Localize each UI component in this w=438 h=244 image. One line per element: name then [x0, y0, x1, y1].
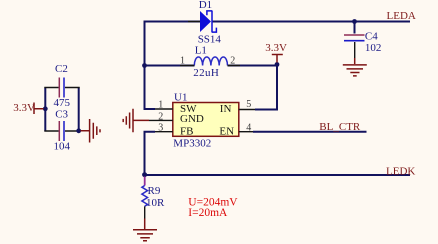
svg-text:3.3V: 3.3V	[13, 102, 35, 114]
op-amp U1 MP3302 chip body	[173, 103, 239, 137]
svg-text:2: 2	[158, 111, 163, 122]
wire L1 right to 3.3V corner and down to pin5	[228, 65, 278, 110]
svg-text:EN: EN	[219, 125, 234, 137]
svg-text:LEDK: LEDK	[386, 166, 415, 178]
node: junction 3.3V top	[275, 62, 280, 67]
node: junction 3.3V left entry	[43, 106, 48, 111]
capacitor C4	[344, 34, 365, 36]
pin 4 EN	[239, 131, 253, 133]
wire L1 left branch	[145, 65, 195, 67]
wire C4 bottom stub (navy part)	[354, 42, 356, 58]
power port 3.3V top (bar)	[272, 55, 283, 63]
wire C3 bottom branch (black pins)	[44, 130, 79, 132]
svg-text:GND: GND	[180, 113, 204, 125]
svg-text:D1: D1	[199, 0, 212, 11]
ground (right of C3)	[81, 119, 101, 143]
wire C4 top stub	[354, 22, 356, 34]
pin 3 FB	[155, 131, 173, 133]
svg-text:I=20mA: I=20mA	[188, 207, 228, 219]
svg-text:3: 3	[158, 122, 163, 133]
wire C2/C3 loop right side	[78, 88, 80, 132]
capacitor C2	[58, 78, 60, 98]
svg-text:10R: 10R	[146, 197, 165, 209]
capacitor C3	[58, 121, 60, 141]
resistor R9	[144, 177, 146, 186]
node: junction L1 branch	[142, 63, 147, 68]
inductor L1	[194, 57, 227, 66]
wire top-left: vertical trunk + top wire to diode anode	[145, 22, 201, 110]
svg-text:C2: C2	[55, 63, 68, 75]
pin 2 GND	[149, 119, 173, 121]
svg-text:102: 102	[365, 42, 382, 54]
svg-text:C4: C4	[365, 31, 378, 43]
svg-text:FB: FB	[180, 125, 193, 137]
wire pin3 to LEDK trunk	[145, 132, 411, 175]
svg-text:22uH: 22uH	[193, 67, 219, 79]
svg-text:R9: R9	[148, 185, 161, 197]
svg-text:BL_CTR: BL_CTR	[319, 121, 361, 133]
svg-text:L1: L1	[195, 45, 207, 57]
svg-text:1: 1	[180, 55, 185, 66]
power port 3.3V left (bar)	[34, 103, 44, 115]
wire C2/C3 loop left side	[44, 88, 46, 132]
pin 1 SW	[155, 108, 173, 110]
svg-text:475: 475	[54, 97, 71, 109]
svg-text:C3: C3	[55, 109, 68, 121]
svg-text:104: 104	[54, 141, 71, 153]
svg-text:2: 2	[230, 55, 235, 66]
pin 5 IN	[239, 109, 255, 111]
svg-text:1: 1	[158, 100, 163, 111]
wire C2 top branch (black pins)	[44, 87, 79, 89]
node: junction C4 on LEDA wire	[352, 19, 357, 24]
ground (below R9)	[133, 219, 157, 241]
wire pin4 to BL_CTR	[253, 131, 367, 133]
svg-text:U1: U1	[174, 91, 187, 103]
svg-text:LEDA: LEDA	[387, 10, 416, 22]
ground (left of pin 2, pointing left)	[123, 109, 149, 133]
diode D1 SS14	[200, 11, 211, 32]
node: junction C3 bottom-right	[76, 128, 81, 133]
svg-text:5: 5	[246, 99, 251, 110]
wire top: diode cathode to LEDA	[213, 21, 411, 23]
svg-text:4: 4	[246, 122, 251, 133]
svg-text:MP3302: MP3302	[173, 138, 211, 150]
node: junction R9 top	[142, 172, 147, 177]
svg-text:IN: IN	[220, 103, 232, 115]
ground (below C4)	[343, 58, 367, 76]
svg-text:3.3V: 3.3V	[265, 42, 287, 54]
